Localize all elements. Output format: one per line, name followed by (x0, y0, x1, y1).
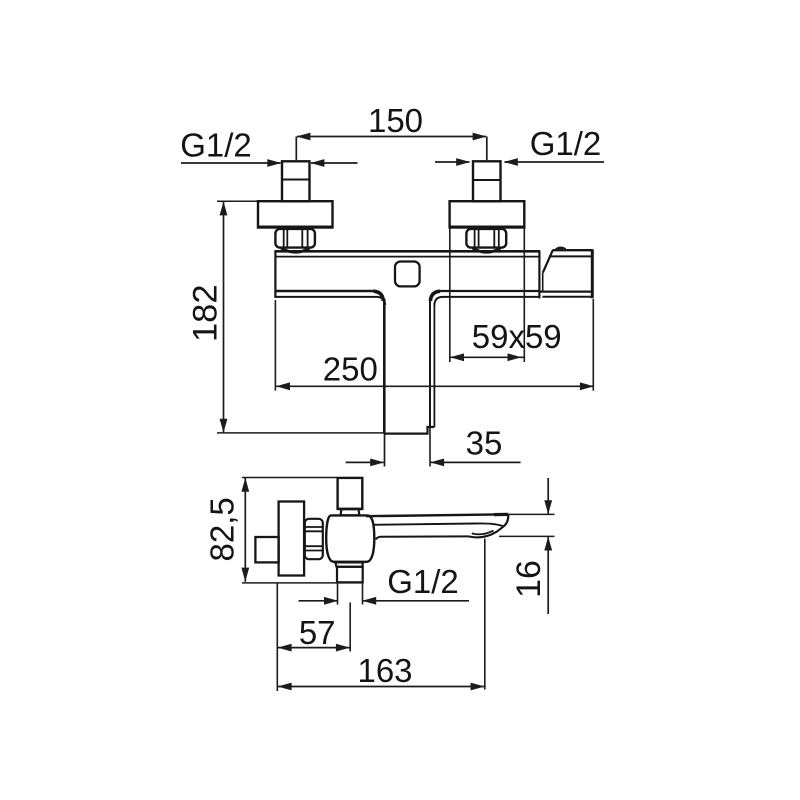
svg-text:35: 35 (466, 424, 503, 461)
left flange (258, 201, 333, 227)
aerator square knob on body (395, 262, 420, 287)
dim 57 (278, 644, 351, 652)
svg-text:59x59: 59x59 (472, 318, 562, 355)
svg-text:82,5: 82,5 (204, 497, 241, 561)
spout aerator (469, 526, 504, 537)
body bar top edge (275, 250, 539, 253)
right hex nut (466, 229, 506, 248)
spout column left edge (383, 299, 386, 434)
svg-text:16: 16 (510, 560, 548, 598)
body left edge (274, 250, 276, 298)
body bottom inner line with corner arcs into spout column (275, 290, 373, 292)
spout tip edge (504, 514, 509, 526)
wall connector block (255, 537, 278, 562)
left washer arc (281, 248, 310, 252)
right flange (450, 201, 525, 227)
dim 182 vertical (217, 201, 384, 433)
dim 163 (278, 539, 485, 691)
left extension line (wall face) (276, 583, 278, 691)
svg-text:G1/2: G1/2 (180, 126, 252, 163)
body ball (side view) (326, 515, 374, 561)
svg-text:150: 150 (368, 102, 423, 139)
spout column right inner edge (429, 299, 431, 427)
right inlet pipe (473, 161, 501, 201)
right washer arc (473, 248, 501, 252)
svg-text:57: 57 (299, 614, 336, 651)
bottom collar (335, 562, 363, 567)
G1/2 pointer arrows (side view) (299, 583, 470, 605)
cartridge cap block (338, 478, 363, 509)
wall plate (279, 502, 305, 576)
body bottom outer line (275, 297, 385, 305)
G1/2 right pointer arrows (435, 158, 604, 166)
center extension line below outlet (349, 603, 351, 652)
spout column bottom edge (384, 427, 434, 434)
svg-text:G1/2: G1/2 (387, 563, 459, 600)
dim 35 (346, 428, 521, 467)
svg-text:163: 163 (357, 652, 412, 689)
dim 82,5 (241, 478, 363, 583)
spout top edge (366, 514, 508, 516)
G1/2 left pointer arrows (181, 159, 358, 167)
spout second top line (374, 523, 504, 526)
dim 59x59 (450, 228, 525, 362)
body bar second top line (275, 256, 539, 258)
spout column right outer edge (433, 303, 435, 427)
svg-text:250: 250 (323, 351, 378, 388)
handle (front view) (539, 249, 592, 298)
left hex nut (275, 229, 315, 248)
left inlet pipe (282, 161, 310, 201)
svg-text:G1/2: G1/2 (530, 125, 602, 162)
svg-text:182: 182 (187, 284, 225, 342)
dim line 150 (296, 133, 487, 160)
handle lever dark bump (554, 246, 568, 250)
dim 250 (275, 299, 594, 391)
dim 16 (499, 478, 555, 614)
spout bottom edge (376, 536, 469, 539)
shower outlet block (337, 567, 363, 583)
body right edge (538, 250, 540, 298)
cap neck (338, 509, 362, 515)
side hex nut (305, 519, 323, 559)
